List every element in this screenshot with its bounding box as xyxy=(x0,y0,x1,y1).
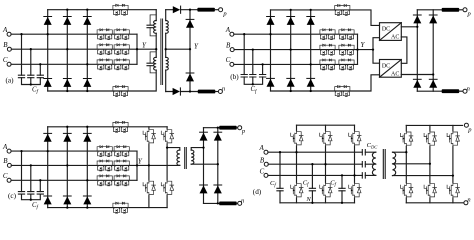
transistor S11 bottom out-leg2 xyxy=(424,183,436,199)
wire secondary bottom to output leg2 xyxy=(191,163,218,165)
diode clamp upper xyxy=(186,19,194,27)
svg-text:A: A xyxy=(2,143,8,151)
wire secondary leads xyxy=(165,10,167,92)
svg-text:DC: DC xyxy=(382,27,390,33)
svg-text:(c): (c) xyxy=(8,192,17,200)
capacitor Cf phase C xyxy=(260,75,266,78)
wire block2 output lower xyxy=(401,74,433,76)
diode output bottom xyxy=(173,88,181,95)
diode output bottom leg1 xyxy=(200,185,208,193)
terminal p xyxy=(238,126,242,130)
diode bottom leg2 xyxy=(287,78,295,86)
terminal C xyxy=(7,62,11,66)
wire output bottom rail xyxy=(417,90,441,92)
transformer T1 primary lower winding xyxy=(154,57,157,70)
diode top leg3 xyxy=(307,17,315,25)
diode top leg1 xyxy=(44,17,52,25)
svg-text:AC: AC xyxy=(391,35,399,41)
terminal n xyxy=(218,90,222,94)
wire cap star bottom xyxy=(244,77,262,84)
wire phase B with dc-block cap xyxy=(268,163,376,165)
converter block U2 DC/AC xyxy=(380,60,402,78)
bidirectional switch row B col2 xyxy=(339,44,354,55)
diode bottom leg2 xyxy=(63,79,71,87)
transistor S2 top leg2 xyxy=(320,131,332,147)
bidirectional switch row A col1 xyxy=(97,146,112,157)
wire output leg 2 xyxy=(217,128,219,204)
bidirectional switch row C col1 xyxy=(97,59,112,70)
wire cap stub A xyxy=(21,34,23,75)
svg-text:A: A xyxy=(2,26,8,34)
svg-text:B: B xyxy=(226,41,231,49)
terminal B xyxy=(230,48,234,52)
capacitor Cf phase A xyxy=(241,75,247,78)
bidirectional switch row A col2 xyxy=(114,29,129,40)
inductor output bottom xyxy=(442,89,460,93)
transformer T secondary winding xyxy=(191,150,194,164)
svg-text:B: B xyxy=(3,41,8,49)
wire primary lower leads xyxy=(155,49,157,57)
bidirectional switch module on bottom rail xyxy=(113,202,128,213)
wire to terminal p xyxy=(215,9,219,11)
wire output bridge top rail xyxy=(406,124,462,126)
terminal C xyxy=(230,62,234,66)
transistor Q3 bottom left xyxy=(143,180,155,196)
capacitor Cf leg3 xyxy=(339,188,345,191)
transistor S10 bottom out-leg1 xyxy=(401,183,413,199)
transformer T1 secondary lower winding xyxy=(166,57,169,70)
wire output top rail xyxy=(204,127,220,129)
bidirectional switch module on top rail xyxy=(335,4,350,15)
wire secondary top tap to leg1 xyxy=(393,151,407,153)
svg-text:n: n xyxy=(222,86,225,93)
wire phase C xyxy=(11,179,137,181)
terminal p xyxy=(464,123,468,127)
wire filter cap stub B xyxy=(311,164,313,203)
diode output top xyxy=(173,6,181,13)
bidirectional switch row B col2 xyxy=(114,44,129,55)
wire rectifier leg 3 xyxy=(86,127,88,208)
bidirectional switch row C col2 xyxy=(114,59,129,70)
transformer T1 primary upper winding xyxy=(154,21,157,34)
wire input bridge bottom rail N xyxy=(280,202,355,204)
bidirectional switch module on bottom rail xyxy=(113,86,128,97)
svg-text:DC: DC xyxy=(382,63,390,69)
terminal A xyxy=(7,149,11,153)
svg-text:p: p xyxy=(467,127,472,134)
wire output leg 2 xyxy=(432,10,434,91)
wire output leg 2 xyxy=(429,125,431,202)
wire bottom dc rail xyxy=(48,70,157,91)
wire output leg 1 xyxy=(405,125,407,202)
svg-text:B: B xyxy=(260,156,265,164)
svg-text:A: A xyxy=(258,144,264,152)
bidirectional switch row C col1 xyxy=(320,59,335,70)
wire cap stub B xyxy=(30,165,32,191)
svg-text:A: A xyxy=(225,26,231,34)
wire phase A xyxy=(234,33,358,35)
svg-text:AC: AC xyxy=(391,71,399,77)
wire rectifier leg 3 xyxy=(86,10,88,91)
wire output leg 3 xyxy=(452,125,454,202)
transistor S5 bottom leg2 xyxy=(320,183,332,199)
wire phase C xyxy=(234,63,358,65)
diode top leg3 xyxy=(83,133,91,141)
svg-text:n: n xyxy=(467,197,470,204)
svg-text:p: p xyxy=(241,128,246,135)
wire output diode leg xyxy=(189,10,191,92)
wire phase B xyxy=(234,49,357,51)
bidirectional switch row A col2 xyxy=(114,146,129,157)
wire secondary mid to diode leg xyxy=(166,48,190,50)
diode output bottom leg2 xyxy=(214,185,222,193)
wire rectifier leg 2 xyxy=(290,10,292,91)
bidirectional switch row C col1 xyxy=(97,175,112,186)
full-bridge leg 1 wire xyxy=(148,127,150,208)
transistor S8 top out-leg2 xyxy=(424,131,436,147)
transistor Q4 bottom right xyxy=(161,180,173,196)
bidirectional switch row B col1 xyxy=(320,44,335,55)
diode bottom leg3 xyxy=(83,196,91,204)
bidirectional switch row B col1 xyxy=(97,44,112,55)
wire output leg 1 xyxy=(416,10,418,91)
wire to terminal n xyxy=(237,202,238,204)
svg-text:n: n xyxy=(467,85,470,92)
terminal A xyxy=(7,32,11,36)
diode bottom leg2 xyxy=(63,196,71,204)
diode top leg2 xyxy=(287,17,295,25)
diode output bottom leg2 xyxy=(429,79,437,87)
wire phase B xyxy=(11,164,137,166)
wire bottom dc rail xyxy=(48,207,167,209)
wire Y to transformer mid xyxy=(137,48,156,50)
wire rectifier leg 1 xyxy=(270,10,272,91)
diode output top leg2 xyxy=(429,15,437,23)
wire input leg 3 xyxy=(354,125,356,203)
wire injection bus Y xyxy=(357,34,359,64)
terminal B xyxy=(264,162,268,166)
wire primary upper leads xyxy=(155,10,157,50)
transformer T1 core xyxy=(161,19,163,85)
resonant capacitor branch upper xyxy=(150,15,156,36)
diode top leg1 xyxy=(267,17,275,25)
wire secondary top to output leg1 xyxy=(191,148,203,151)
bidirectional switch row A col1 xyxy=(320,29,335,40)
full-bridge leg 2 wire xyxy=(166,127,168,208)
wire cap stub B xyxy=(30,49,32,75)
diode top leg1 xyxy=(44,133,52,141)
transistor S7 top out-leg1 xyxy=(401,131,413,147)
terminal A xyxy=(264,150,268,154)
wire output leg 1 xyxy=(203,128,205,204)
wire to terminal p xyxy=(459,9,463,11)
transformer T1 secondary upper winding xyxy=(166,21,169,34)
diode output top leg1 xyxy=(413,15,421,23)
terminal p xyxy=(463,8,467,12)
bidirectional switch row A col2 xyxy=(339,29,354,40)
wire phase B xyxy=(11,48,137,50)
wire cap star bottom xyxy=(22,194,41,200)
wire block1 to block2 series link xyxy=(401,37,407,63)
wire injection bus Y xyxy=(136,151,138,180)
wire to terminal n xyxy=(459,90,463,92)
svg-text:(a): (a) xyxy=(6,76,15,84)
wire output bottom rail xyxy=(166,91,198,93)
capacitor CDC phase B xyxy=(362,162,365,167)
wire output bridge bottom rail xyxy=(406,202,464,204)
diode output top leg1 xyxy=(200,132,208,140)
wire leg2 midpoint to primary top xyxy=(167,148,180,151)
terminal A xyxy=(230,32,234,36)
transistor S3 top leg3 xyxy=(349,131,361,147)
wire rectifier leg 1 xyxy=(47,127,49,208)
diode bottom leg3 xyxy=(307,78,315,86)
wire secondary mid tap to leg2 xyxy=(393,163,430,165)
svg-text:(d): (d) xyxy=(253,188,262,196)
transistor Q2 top right xyxy=(161,129,173,145)
wire Y to primary bottom xyxy=(137,164,180,166)
wire block1 output upper xyxy=(401,26,417,28)
terminal B xyxy=(7,47,11,51)
wire cap stub C xyxy=(39,64,41,75)
capacitor CDC phase C xyxy=(362,173,365,178)
diode clamp lower xyxy=(186,73,194,81)
wire Y branch to blocks xyxy=(358,38,380,64)
transformer T primary winding xyxy=(177,150,180,165)
transformer T core xyxy=(383,150,385,179)
wire secondary bottom tap to leg3 xyxy=(393,175,453,177)
terminal n xyxy=(238,201,242,205)
capacitor CDC phase A xyxy=(362,150,365,155)
wire top dc rail xyxy=(48,126,167,128)
capacitor Cf phase A xyxy=(18,192,24,195)
diode bottom leg3 xyxy=(83,79,91,87)
capacitor Cf phase B xyxy=(250,75,256,78)
svg-text:C: C xyxy=(3,172,8,180)
transistor S6 bottom leg3 xyxy=(349,183,361,199)
bidirectional switch module on top rail xyxy=(113,121,128,132)
bidirectional switch row A col1 xyxy=(97,29,112,40)
diode bottom leg1 xyxy=(44,196,52,204)
bidirectional switch row B col1 xyxy=(97,160,112,171)
wire cap stub A xyxy=(21,151,23,192)
capacitor Cf phase C xyxy=(37,192,43,195)
junction dots xyxy=(279,151,454,204)
capacitor Cf phase B xyxy=(28,192,34,195)
wire to terminal p xyxy=(237,127,238,129)
wire cap stub A xyxy=(243,34,245,74)
capacitor Cf phase B xyxy=(28,75,34,78)
diode output bottom leg1 xyxy=(413,79,421,87)
capacitor Cf phase A xyxy=(18,75,24,78)
wire filter cap stub A xyxy=(279,152,281,203)
wire input bridge top rail xyxy=(297,124,355,126)
converter block U1 DC/AC xyxy=(380,23,402,41)
transistor S12 bottom out-leg3 xyxy=(447,183,459,199)
diode top leg3 xyxy=(83,17,91,25)
transformer T primary winding xyxy=(372,152,375,175)
transformer T core xyxy=(185,148,187,169)
inductor output top xyxy=(219,126,237,130)
diode output top leg2 xyxy=(214,132,222,140)
transistor Q1 top left xyxy=(143,129,155,145)
capacitor Cf phase C xyxy=(37,75,43,78)
wire bottom dc rail to block2 xyxy=(271,75,380,91)
transistor S1 top leg1 xyxy=(291,131,303,147)
wire output top rail xyxy=(166,9,198,11)
wire output bottom rail xyxy=(204,202,220,204)
bidirectional switch module on top rail xyxy=(113,4,128,15)
capacitor Cf leg2 xyxy=(309,188,315,191)
wire rectifier leg 2 xyxy=(66,10,68,91)
terminal p xyxy=(219,8,223,12)
bidirectional switch row C col2 xyxy=(339,59,354,70)
wire phase A with dc-block cap xyxy=(268,151,376,153)
wire cap stub C xyxy=(39,180,41,191)
svg-text:n: n xyxy=(241,197,244,204)
wire cap stub B xyxy=(252,50,254,75)
terminal n xyxy=(463,89,467,93)
wire rectifier leg 1 xyxy=(47,10,49,91)
diode top leg2 xyxy=(63,17,71,25)
junction dots xyxy=(243,9,434,92)
wire output top rail xyxy=(417,9,441,11)
wire injection bus Y xyxy=(136,34,138,64)
transformer T secondary winding xyxy=(393,152,396,175)
wire top dc rail to block1 xyxy=(271,10,380,26)
junction dots xyxy=(20,126,219,209)
wire phase C with dc-block cap xyxy=(268,174,376,176)
inductor output top xyxy=(442,8,460,12)
wire cap stub C xyxy=(262,64,264,74)
wire cap star bottom xyxy=(22,78,41,85)
svg-text:(b): (b) xyxy=(230,73,239,81)
svg-text:N: N xyxy=(305,196,311,203)
transistor S4 bottom leg1 xyxy=(291,183,303,199)
inductor output bottom xyxy=(219,202,237,206)
wire phase A xyxy=(11,33,137,35)
wire input leg 2 xyxy=(325,125,327,203)
bidirectional switch module on bottom rail xyxy=(335,86,350,97)
diode bottom leg1 xyxy=(267,78,275,86)
junction dots xyxy=(20,9,191,93)
wire rectifier leg 3 xyxy=(310,10,312,91)
inductor output top xyxy=(197,8,215,12)
svg-text:C: C xyxy=(226,56,231,64)
capacitor Cf leg1 xyxy=(277,188,283,191)
wire phase A xyxy=(11,150,137,152)
wire phase C xyxy=(11,63,137,65)
diode top leg2 xyxy=(63,133,71,141)
wire rectifier leg 2 xyxy=(66,127,68,208)
svg-text:p: p xyxy=(222,10,227,17)
terminal C xyxy=(264,173,268,177)
wire filter cap stub C xyxy=(341,175,343,202)
inductor output bottom xyxy=(198,90,216,94)
bidirectional switch row C col2 xyxy=(114,175,129,186)
terminal B xyxy=(7,163,11,167)
transistor S9 top out-leg3 xyxy=(447,131,459,147)
svg-text:C: C xyxy=(259,168,264,176)
terminal C xyxy=(7,178,11,182)
wire top dc rail xyxy=(48,9,157,11)
bidirectional switch row B col2 xyxy=(114,160,129,171)
diode bottom leg1 xyxy=(44,79,52,87)
svg-text:B: B xyxy=(3,157,8,165)
wire input leg 1 xyxy=(296,125,298,203)
svg-text:C: C xyxy=(3,56,8,64)
wire to terminal n xyxy=(215,91,218,93)
resonant capacitor branch lower xyxy=(150,52,156,73)
terminal n xyxy=(464,201,468,205)
